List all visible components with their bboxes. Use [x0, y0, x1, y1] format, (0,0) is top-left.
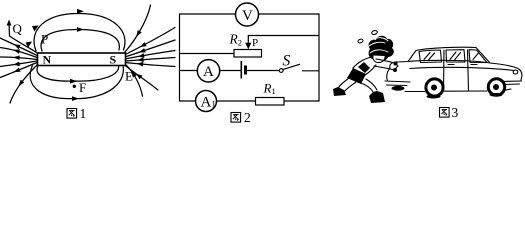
- svg-text:V: V: [242, 8, 253, 24]
- svg-text:2: 2: [244, 110, 251, 124]
- svg-text:F: F: [79, 80, 86, 95]
- svg-text:A: A: [203, 64, 214, 80]
- svg-text:E: E: [125, 69, 133, 84]
- svg-text:N: N: [43, 53, 52, 67]
- svg-text:Q: Q: [13, 21, 23, 36]
- svg-text:1: 1: [80, 106, 87, 121]
- svg-text:P: P: [252, 37, 258, 49]
- svg-text:S: S: [110, 53, 117, 67]
- svg-text:S: S: [283, 53, 291, 70]
- svg-text:P: P: [41, 32, 48, 47]
- svg-text:3: 3: [452, 105, 459, 120]
